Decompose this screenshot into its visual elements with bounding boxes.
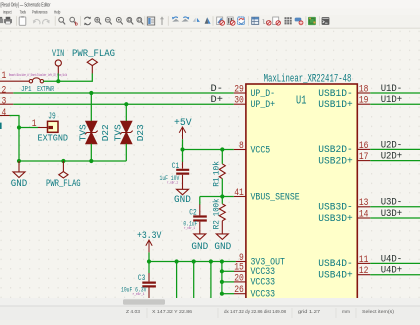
svg-text:29: 29 bbox=[234, 84, 244, 95]
wire net U4D- bbox=[370, 262, 420, 264]
toolbar icon: zoom out bbox=[105, 17, 110, 22]
junction rail / branch 3 bbox=[209, 259, 213, 263]
toolbar separator bbox=[54, 17, 56, 26]
jumper JP1 bbox=[21, 78, 54, 94]
svg-text:r_x5r_1: r_x5r_1 bbox=[184, 226, 195, 231]
wire net U4D+ bbox=[370, 274, 420, 276]
svg-text:D23: D23 bbox=[136, 124, 146, 141]
svg-text:USB2D+: USB2D+ bbox=[318, 156, 352, 167]
svg-text:VCC5: VCC5 bbox=[251, 145, 271, 156]
resistor R2 bbox=[211, 199, 225, 230]
junction D+ / D23 bbox=[124, 102, 128, 106]
connector J9 EXTGND bbox=[32, 110, 69, 143]
toolbar separator bbox=[144, 17, 146, 26]
ground symbol GND (C1) bbox=[174, 175, 191, 206]
toolbar icon: paste clipboard bbox=[19, 17, 26, 25]
toolbar separator bbox=[248, 17, 250, 26]
title bar bbox=[0, 0, 420, 9]
wire C3 stem bbox=[148, 262, 150, 274]
svg-text:GND: GND bbox=[174, 195, 191, 206]
wire net U3D- bbox=[370, 206, 420, 208]
toolbar icon: leave sheet (up arrow) bbox=[161, 18, 163, 25]
power symbol PWR_FLAG (top) bbox=[72, 49, 115, 73]
status bar bbox=[0, 306, 420, 320]
capacitor C2 bbox=[183, 204, 206, 231]
toolbar icon: mirror vertically bbox=[205, 17, 209, 24]
wire branch 3 down bbox=[210, 262, 212, 299]
wire branch 2 down bbox=[193, 262, 195, 299]
toolbar icon: plot/print bbox=[4, 19, 12, 23]
svg-text:18: 18 bbox=[359, 84, 369, 95]
svg-text:Help: Help bbox=[54, 10, 61, 15]
svg-text:D22: D22 bbox=[101, 124, 111, 141]
svg-text:17: 17 bbox=[359, 152, 369, 163]
wire D23 top bbox=[125, 104, 127, 121]
svg-text:8: 8 bbox=[239, 141, 244, 152]
ground symbol GND (C2) bbox=[191, 222, 208, 253]
svg-text:20: 20 bbox=[234, 273, 244, 284]
scrollbar thumb bbox=[123, 299, 165, 305]
junction +5V / C1 bbox=[180, 147, 184, 151]
pin 20 stub bbox=[234, 281, 246, 283]
svg-text:USB3D-: USB3D- bbox=[318, 203, 352, 214]
svg-text:dx 147.32 dy 22.86 dist 149.08: dx 147.32 dy 22.86 dist 149.08 bbox=[224, 309, 287, 314]
junction D- / D22 bbox=[89, 91, 93, 95]
junction GND rail / D22 bbox=[89, 159, 93, 163]
svg-text:USB4D-: USB4D- bbox=[318, 259, 352, 270]
wire net U2D+ bbox=[370, 160, 420, 162]
pin 8 stub bbox=[234, 149, 246, 151]
junction GND rail / PWR_FLAG bbox=[61, 159, 65, 163]
svg-text:TVS: TVS bbox=[113, 124, 123, 141]
svg-text:U3D+: U3D+ bbox=[381, 209, 403, 220]
power symbol VIN bbox=[52, 49, 64, 73]
svg-text:X 147.32 Y 22.86: X 147.32 Y 22.86 bbox=[152, 309, 193, 314]
svg-text:USB1D-: USB1D- bbox=[318, 89, 352, 100]
svg-text:U2D-: U2D- bbox=[381, 140, 403, 151]
wire net D- bbox=[13, 92, 234, 94]
svg-text:mm: mm bbox=[342, 309, 351, 314]
pin 11 stub bbox=[357, 262, 370, 264]
svg-text:Inspect: Inspect bbox=[3, 10, 12, 15]
toolbar icon: zoom in bbox=[95, 17, 100, 22]
svg-text:PWR_FLAG: PWR_FLAG bbox=[46, 179, 81, 190]
svg-text:GND: GND bbox=[214, 242, 231, 253]
toolbar icon: rotate CW bbox=[182, 19, 189, 22]
svg-text:J9: J9 bbox=[48, 110, 56, 121]
resistor R1 bbox=[211, 161, 225, 187]
svg-text:Preferences: Preferences bbox=[32, 10, 47, 15]
connector pin 3 stub bbox=[0, 103, 13, 105]
toolbar separator bbox=[16, 17, 18, 26]
toolbar icon: undo (disabled) bbox=[34, 19, 40, 23]
pin 18 stub bbox=[357, 92, 370, 94]
svg-text:U4D-: U4D- bbox=[381, 254, 403, 265]
wire to pin 26 bbox=[222, 293, 234, 295]
svg-text:VBUS_SENSE: VBUS_SENSE bbox=[251, 192, 300, 203]
junction VCC33 pin 15 bbox=[220, 269, 224, 273]
wire VBUS_SENSE to pin 41 bbox=[200, 196, 234, 198]
wire VIN stem bbox=[57, 73, 59, 81]
junction VCC33 pin 20 bbox=[220, 280, 224, 284]
svg-text:Z 4.03: Z 4.03 bbox=[126, 309, 141, 314]
junction rail / branch 2 bbox=[192, 259, 196, 263]
svg-text:USB1D+: USB1D+ bbox=[318, 100, 352, 111]
toolbar icon: redo (disabled) bbox=[43, 19, 49, 23]
IC U1 body bbox=[246, 84, 357, 306]
ground symbol GND (R2) bbox=[214, 221, 231, 253]
svg-text:13: 13 bbox=[359, 198, 369, 209]
junction VCC33 pin 26 bbox=[220, 292, 224, 296]
junction EXTGND node bbox=[17, 125, 21, 129]
svg-text:R2: R2 bbox=[211, 220, 221, 229]
junction VIN node bbox=[56, 79, 60, 83]
pin 16 stub bbox=[357, 148, 370, 150]
svg-text:r_x5r_1: r_x5r_1 bbox=[167, 180, 178, 185]
horizontal scrollbar bbox=[0, 298, 420, 306]
toolbar icon: zoom to fit bbox=[116, 17, 121, 22]
capacitor C1 bbox=[160, 162, 190, 186]
svg-text:12: 12 bbox=[359, 266, 369, 277]
wire GND rail bbox=[19, 160, 126, 162]
svg-text:EXTGND: EXTGND bbox=[38, 133, 69, 144]
toolbar separator bbox=[80, 17, 82, 26]
toolbar icon: zoom to selection bbox=[137, 17, 142, 22]
svg-text:D+: D+ bbox=[211, 95, 223, 106]
svg-text:Select item(s): Select item(s) bbox=[362, 309, 395, 314]
wire VCC33 chain vertical bbox=[221, 262, 223, 294]
toolbar icon: export netlist bbox=[295, 18, 302, 22]
toolbar separator bbox=[319, 17, 321, 26]
svg-text:TVS: TVS bbox=[78, 124, 88, 141]
pin 17 stub bbox=[357, 160, 370, 162]
svg-text:41: 41 bbox=[234, 188, 244, 199]
power symbol +5V bbox=[174, 118, 192, 139]
TVS diode D22 bbox=[78, 121, 110, 143]
toolbar icon: rotate CCW bbox=[172, 19, 179, 22]
svg-text:11: 11 bbox=[359, 255, 369, 266]
toolbar icon: show console window bbox=[322, 17, 330, 25]
svg-text:R1: R1 bbox=[211, 177, 221, 186]
toolbar icon: refresh bbox=[85, 17, 90, 19]
svg-text:3: 3 bbox=[2, 97, 7, 108]
menu bar bbox=[0, 9, 420, 16]
svg-text:U2D+: U2D+ bbox=[381, 152, 403, 163]
toolbar icon: symbol fields table bbox=[252, 17, 259, 24]
svg-text:USB2D-: USB2D- bbox=[318, 145, 352, 156]
pin 29 stub bbox=[234, 92, 246, 94]
svg-text:4: 4 bbox=[2, 108, 7, 119]
svg-text:100k: 100k bbox=[211, 199, 221, 217]
wire +5V stem bbox=[182, 139, 184, 149]
wire to pin 15 bbox=[222, 270, 234, 272]
svg-text:D-: D- bbox=[211, 84, 223, 95]
svg-text:26: 26 bbox=[234, 285, 244, 296]
wire +5V rail to pin 8 bbox=[183, 149, 234, 151]
toolbar icon: ERC bbox=[227, 17, 233, 25]
pin 26 stub bbox=[234, 293, 246, 295]
svg-text:U1D-: U1D- bbox=[381, 84, 403, 95]
toolbar bbox=[0, 15, 420, 28]
svg-text:USB4D+: USB4D+ bbox=[318, 271, 352, 282]
svg-text:30: 30 bbox=[234, 96, 244, 107]
wire D22 bottom bbox=[90, 144, 92, 161]
wire net U2D- bbox=[370, 148, 420, 150]
svg-text:15: 15 bbox=[234, 263, 244, 274]
wire to pin 20 bbox=[222, 281, 234, 283]
svg-text:UP_D+: UP_D+ bbox=[251, 100, 276, 111]
wire +3.3V stem bbox=[148, 252, 150, 261]
toolbar icon: navigate sheets bbox=[147, 17, 154, 25]
pin 41 stub bbox=[234, 196, 246, 198]
pin 14 stub bbox=[357, 217, 370, 219]
svg-text:16: 16 bbox=[359, 141, 369, 152]
svg-text:b: b bbox=[75, 21, 78, 27]
toolbar separator bbox=[167, 17, 169, 26]
wire net D+ bbox=[13, 103, 234, 105]
junction rail / branch 1 bbox=[175, 259, 179, 263]
svg-text:19: 19 bbox=[359, 96, 369, 107]
wire EXTGND node down to GND rail bbox=[18, 128, 20, 162]
svg-text:GND: GND bbox=[11, 179, 27, 190]
toolbar icon: open PCB editor bbox=[308, 17, 316, 25]
toolbar icon: BOM table bbox=[285, 17, 292, 24]
wire C2 drop bbox=[199, 197, 201, 205]
ground symbol GND (left) bbox=[11, 161, 27, 190]
svg-text:grid 1.27: grid 1.27 bbox=[298, 309, 321, 314]
svg-text:GND: GND bbox=[191, 242, 208, 253]
junction rail / VCC33 chain bbox=[220, 259, 224, 263]
toolbar icon: print (partial, cut at window edge) bbox=[0, 19, 3, 23]
pin 19 stub bbox=[357, 103, 370, 105]
svg-text:USB3D+: USB3D+ bbox=[318, 214, 352, 225]
toolbar separator bbox=[305, 17, 307, 26]
svg-text:10k: 10k bbox=[211, 161, 221, 175]
svg-text:VCC33: VCC33 bbox=[251, 278, 276, 289]
TVS diode D23 bbox=[113, 121, 145, 143]
wire net U1D+ bbox=[370, 103, 420, 105]
toolbar icon: find bbox=[59, 17, 64, 22]
pin 12 stub bbox=[357, 274, 370, 276]
connector pin 1 stub (left edge) bbox=[0, 80, 29, 82]
wire net U1D- bbox=[370, 92, 420, 94]
svg-text:VIN: VIN bbox=[52, 49, 64, 60]
svg-text:1: 1 bbox=[32, 119, 37, 130]
pin 13 stub bbox=[357, 206, 370, 208]
capacitor C3 bbox=[121, 273, 156, 298]
svg-text:UP_D-: UP_D- bbox=[251, 89, 276, 100]
wire branch 1 down bbox=[176, 262, 178, 299]
toolbar icon: mirror horizontally bbox=[193, 18, 196, 22]
power symbol PWR_FLAG (bottom) bbox=[46, 161, 81, 190]
connector pin 4 stub bbox=[0, 115, 10, 117]
svg-text:U3D-: U3D- bbox=[381, 198, 403, 209]
wire R1 top stub bbox=[221, 150, 223, 164]
svg-text:U4D+: U4D+ bbox=[381, 266, 403, 277]
svg-text:Tools: Tools bbox=[20, 10, 26, 15]
wire EXTPWR node to PWR_FLAG corner bbox=[43, 73, 92, 81]
pin 30 stub bbox=[234, 103, 246, 105]
svg-text:2: 2 bbox=[2, 86, 7, 97]
toolbar icon: update symbols bbox=[238, 17, 245, 25]
svg-text:U1: U1 bbox=[296, 95, 306, 108]
svg-text:14: 14 bbox=[359, 209, 369, 220]
svg-text:r_x5r_1: r_x5r_1 bbox=[133, 292, 145, 297]
pin 9 stub bbox=[236, 261, 246, 263]
toolbar icon: annotate (no-annotate) bbox=[217, 17, 223, 25]
pin 15 stub bbox=[234, 270, 246, 272]
wire R1 bottom to VBUS_SENSE bbox=[221, 179, 223, 197]
power symbol +3.3V bbox=[137, 231, 161, 252]
junction GND rail left bbox=[17, 159, 21, 163]
junction +5V / R1 bbox=[220, 147, 224, 151]
connector pin 2 stub bbox=[0, 92, 13, 94]
svg-text:VCC33: VCC33 bbox=[251, 267, 276, 278]
wire net U3D+ bbox=[370, 217, 420, 219]
svg-text:[Read Only] — Schematic Editor: [Read Only] — Schematic Editor bbox=[1, 3, 51, 9]
toolbar icon: find and replace bbox=[70, 17, 75, 22]
label fragment at left edge bbox=[0, 123, 2, 129]
wire pin4 to EXTGND node bbox=[10, 116, 39, 128]
toolbar separator bbox=[212, 17, 214, 26]
svg-text:1: 1 bbox=[2, 71, 7, 82]
svg-text:MaxLinear_XR22417-48: MaxLinear_XR22417-48 bbox=[264, 73, 352, 85]
junction rail / C3 bbox=[147, 259, 151, 263]
junction VBUS_SENSE bbox=[220, 194, 224, 198]
wire D23 bottom bbox=[125, 144, 127, 161]
wire C1 stem bbox=[182, 150, 184, 163]
wire +3.3V rail to pin 9 bbox=[149, 261, 236, 263]
toolbar icon: show hierarchy bbox=[273, 17, 279, 25]
svg-text:PWR_FLAG: PWR_FLAG bbox=[72, 49, 115, 60]
wire R2 top stub bbox=[221, 197, 223, 204]
wire D22 top bbox=[90, 93, 92, 121]
svg-text:U1D+: U1D+ bbox=[381, 95, 403, 106]
toolbar icon: zoom to page bbox=[127, 17, 132, 22]
